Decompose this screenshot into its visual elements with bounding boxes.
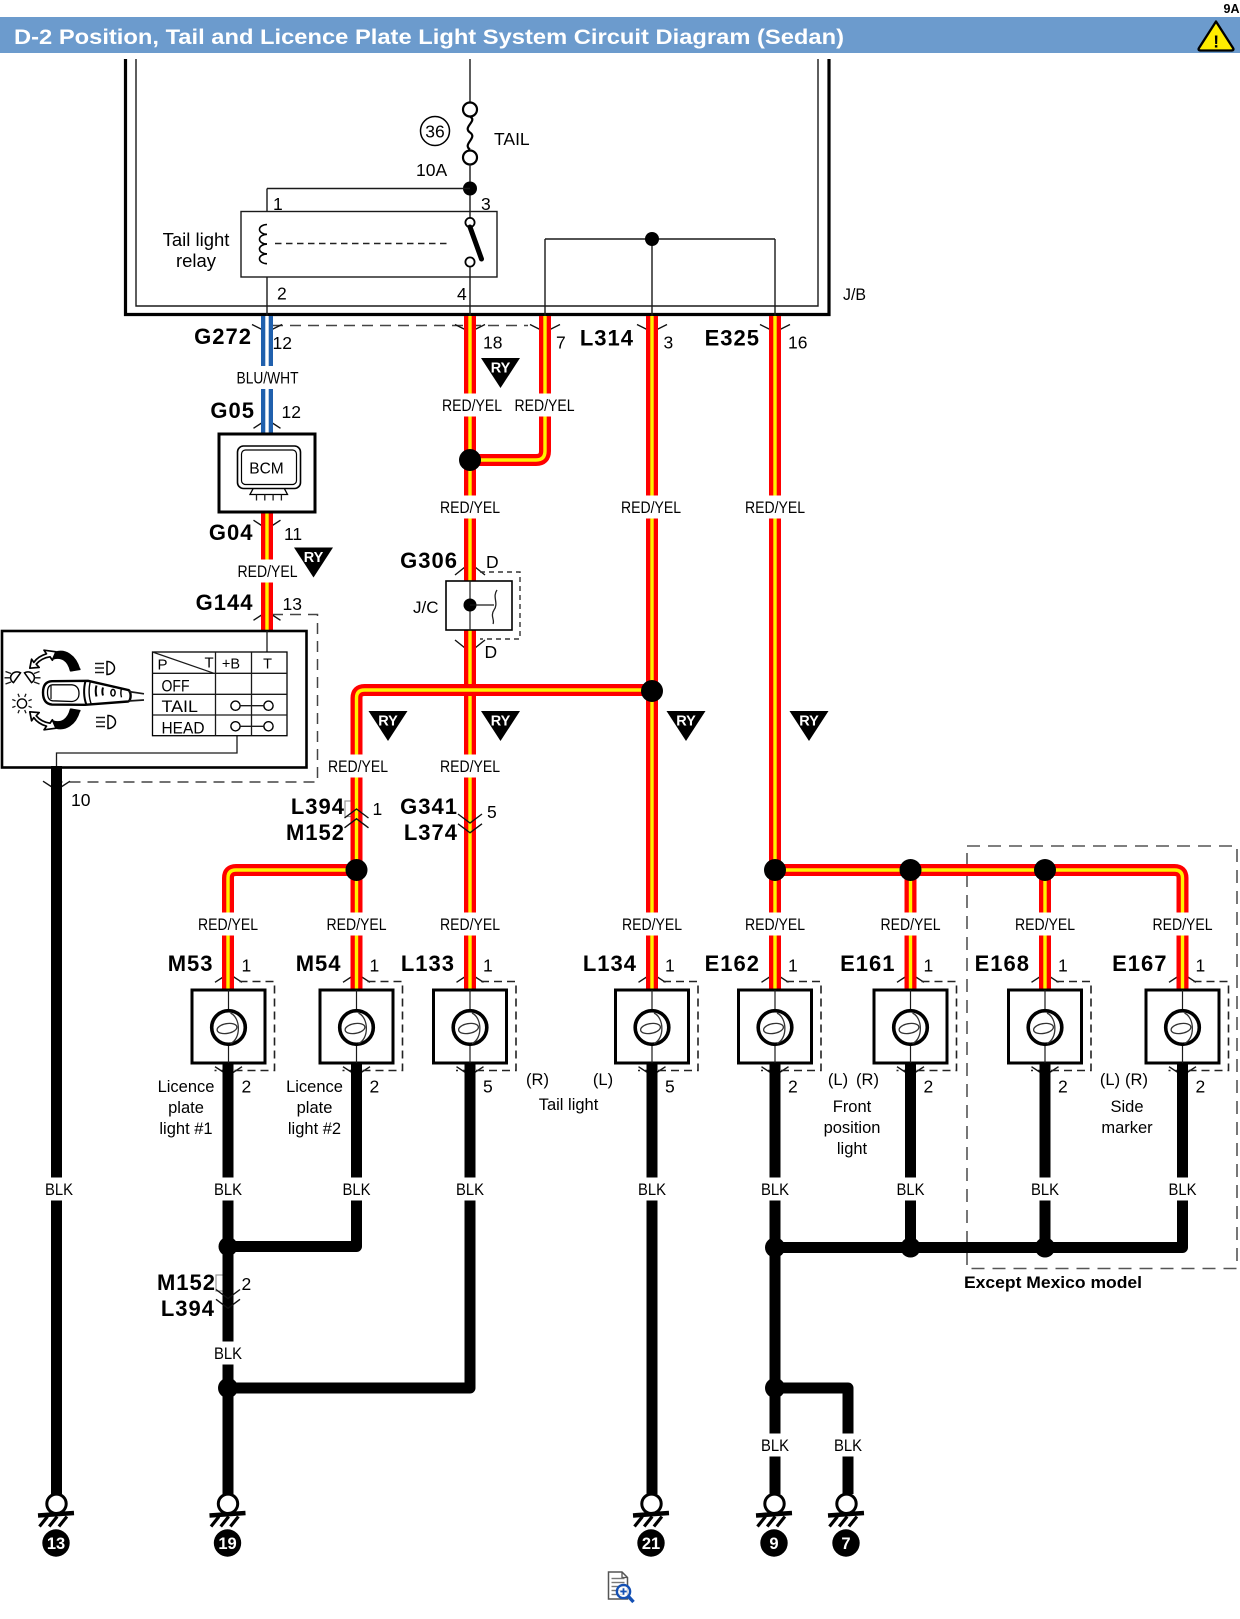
relay K1: tail light relay box (241, 212, 497, 278)
bulb lamp L133 (pins 1/5) (456, 982, 516, 1071)
ground point 19 (218, 1494, 237, 1513)
svg-text:G306: G306 (400, 548, 458, 573)
svg-text:RY: RY (491, 714, 511, 730)
svg-text:BLK: BLK (761, 1181, 789, 1199)
svg-text:7: 7 (556, 333, 566, 353)
svg-text:RED/YEL: RED/YEL (515, 397, 575, 415)
svg-text:BLU/WHT: BLU/WHT (237, 370, 299, 388)
warning icon (1199, 22, 1234, 51)
svg-text:9A: 9A (1224, 2, 1240, 16)
wire RED/YEL: pin 7 into junction (470, 316, 545, 460)
svg-text:L134: L134 (583, 951, 637, 976)
svg-text:Tail light: Tail light (539, 1096, 599, 1114)
node: wire junction dots on RED/YEL buses (459, 449, 481, 471)
svg-text:12: 12 (273, 333, 292, 353)
svg-text:RY: RY (491, 361, 511, 377)
svg-text:RED/YEL: RED/YEL (442, 397, 502, 415)
svg-text:light #2: light #2 (288, 1120, 341, 1138)
wire RED/YEL: J/C down to bulb L133 (464, 630, 476, 990)
svg-text:BLK: BLK (1169, 1181, 1197, 1199)
wire BLK: M53 to ground 19 (223, 1063, 234, 1494)
svg-text:2: 2 (788, 1077, 798, 1097)
svg-text:relay: relay (176, 250, 217, 271)
svg-text:BLK: BLK (214, 1345, 242, 1363)
svg-text:M152: M152 (157, 1270, 216, 1295)
svg-text:D-2 Position, Tail and Licence: D-2 Position, Tail and Licence Plate Lig… (14, 26, 844, 49)
svg-text:5: 5 (487, 802, 497, 822)
dashed connector boundary at G272/18/7 row (272, 325, 528, 327)
svg-text:E167: E167 (1112, 951, 1167, 976)
bulb lamp L134 (pins 1/5) (638, 982, 698, 1071)
svg-text:BLK: BLK (761, 1437, 789, 1455)
svg-text:9: 9 (769, 1535, 778, 1553)
svg-text:2: 2 (277, 284, 287, 304)
wire RED/YEL: drop to bulb E168 (1039, 870, 1051, 990)
svg-text:(R): (R) (856, 1071, 879, 1089)
svg-text:1: 1 (924, 956, 934, 976)
svg-text:Front: Front (833, 1098, 872, 1116)
svg-text:J/C: J/C (413, 598, 439, 617)
svg-text:RED/YEL: RED/YEL (327, 916, 387, 934)
svg-text:RED/YEL: RED/YEL (621, 499, 681, 517)
wire: junction to relay pin 1 (267, 188, 470, 190)
svg-text:1: 1 (788, 956, 798, 976)
svg-text:BLK: BLK (897, 1181, 925, 1199)
bulb lamp M54 (pins 1/2) (343, 982, 403, 1071)
wire RED/YEL: E325 pin 16 to bulb E162 (769, 316, 781, 990)
svg-text:2: 2 (1058, 1077, 1068, 1097)
svg-text:RED/YEL: RED/YEL (745, 499, 805, 517)
wire BLK: switch pin 10 to ground 13 (51, 766, 62, 1494)
svg-text:2: 2 (242, 1274, 252, 1294)
ground point 7 (837, 1494, 856, 1513)
svg-text:HEAD: HEAD (162, 719, 205, 737)
svg-text:13: 13 (47, 1535, 65, 1553)
svg-text:BLK: BLK (834, 1437, 862, 1455)
connector M152/L394 pin 2 (216, 1290, 240, 1299)
wire RED/YEL: BCM G04 to switch G144 (261, 512, 273, 631)
wire colour labels (232, 366, 304, 389)
wire BLK: E162 to ground 9 (770, 1063, 781, 1494)
svg-text:M54: M54 (296, 951, 342, 976)
svg-text:BLK: BLK (1031, 1181, 1059, 1199)
svg-text:G05: G05 (210, 398, 255, 423)
wire: fuse to relay pin 3 (469, 164, 471, 218)
connector pin chevrons and pin squares (455, 563, 485, 575)
svg-text:(L): (L) (828, 1071, 848, 1089)
svg-text:G04: G04 (209, 520, 254, 545)
node: fuse output junction (463, 182, 477, 196)
svg-text:RY: RY (378, 714, 398, 730)
svg-text:10: 10 (71, 790, 91, 810)
bulb lamp E162 (pins 1/2) (761, 982, 821, 1071)
svg-text:1: 1 (373, 799, 383, 819)
svg-text:T: T (205, 655, 214, 672)
wire BLK: E168 to bus (1040, 1063, 1051, 1248)
svg-text:L394: L394 (291, 794, 345, 819)
svg-text:(R): (R) (526, 1071, 549, 1089)
svg-text:RY: RY (676, 714, 696, 730)
dashed box: Except Mexico model (967, 846, 1237, 1269)
svg-text:36: 36 (425, 122, 444, 142)
wire RED/YEL: pin 18 down to J/C (464, 316, 476, 581)
node: J/B internal junction (645, 232, 659, 246)
relay switch contact (465, 218, 474, 227)
svg-text:D: D (486, 552, 499, 572)
bulb lamp E167 (pins 1/2) (1169, 982, 1229, 1071)
wire: J/B internal bus to pins 7/3/16 (545, 238, 775, 240)
svg-text:L133: L133 (401, 951, 455, 976)
wire BLK: L134 to ground 21 (647, 1063, 658, 1494)
svg-text:2: 2 (370, 1077, 380, 1097)
wire BLK: M54 into M53 ground wire (228, 1063, 357, 1247)
RY twisted-wire symbols (481, 358, 520, 388)
svg-text:RED/YEL: RED/YEL (1015, 916, 1075, 934)
svg-text:+B: +B (222, 657, 240, 673)
svg-text:BCM: BCM (249, 461, 283, 478)
bulb lamp M53 (pins 1/2) (215, 982, 275, 1071)
svg-text:1: 1 (1058, 956, 1068, 976)
dashed boundary around combination switch (58, 615, 318, 783)
svg-text:G272: G272 (194, 324, 252, 349)
wire RED/YEL: right bus to bulb E167 (775, 870, 1183, 990)
wire RED/YEL: drop to bulb M54 (351, 870, 363, 990)
svg-text:18: 18 (483, 333, 502, 353)
svg-text:J/B: J/B (843, 285, 866, 304)
wire BLU/WHT: G272 to BCM (261, 316, 273, 434)
relay coil (259, 225, 267, 264)
wire BLK: L133 into ground 19 wire (228, 1063, 470, 1388)
wire BLK: branch to ground 7 (775, 1388, 848, 1494)
svg-text:RED/YEL: RED/YEL (622, 916, 682, 934)
svg-text:RED/YEL: RED/YEL (440, 499, 500, 517)
wire RED/YEL: drop to bulb E161 (905, 870, 917, 990)
svg-text:Side: Side (1110, 1098, 1143, 1116)
module U1: BCM (219, 434, 315, 512)
svg-text:(R): (R) (1125, 1071, 1148, 1089)
svg-text:5: 5 (665, 1077, 675, 1097)
svg-text:Licence: Licence (158, 1078, 215, 1096)
wire: switch output to pin 10 (57, 736, 238, 766)
svg-text:plate: plate (297, 1099, 333, 1117)
svg-text:E325: E325 (705, 326, 760, 351)
svg-text:2: 2 (242, 1077, 252, 1097)
wire: relay pin 2 down (266, 277, 268, 316)
svg-text:OFF: OFF (162, 677, 190, 695)
svg-text:TAIL: TAIL (494, 129, 530, 149)
svg-text:RED/YEL: RED/YEL (1153, 916, 1213, 934)
wire: relay pin 4 down (469, 267, 471, 316)
svg-text:4: 4 (457, 284, 467, 304)
wire BLK: E-side ground bus with E167 (775, 1063, 1183, 1248)
bulb lamp E161 (pins 1/2) (897, 982, 957, 1071)
svg-text:light #1: light #1 (159, 1120, 212, 1138)
ground point 21 (642, 1494, 661, 1513)
svg-text:Licence: Licence (286, 1078, 343, 1096)
svg-text:RED/YEL: RED/YEL (881, 916, 941, 934)
svg-text:L314: L314 (580, 326, 634, 351)
fuse 36 TAIL 10A (463, 103, 477, 117)
ground point 13 (47, 1494, 66, 1513)
wire BLK: E161 to bus (905, 1063, 916, 1248)
svg-text:13: 13 (283, 594, 302, 614)
svg-text:plate: plate (168, 1099, 204, 1117)
svg-text:RY: RY (799, 714, 819, 730)
relay actuation dashed link (275, 243, 448, 245)
svg-text:M152: M152 (286, 820, 345, 845)
junction block J/B outer border (126, 59, 830, 315)
svg-text:16: 16 (788, 333, 807, 353)
wire: supply into fuse 36 (469, 59, 471, 102)
connector L394/M152 pin 1 (345, 809, 369, 818)
svg-text:light: light (837, 1140, 868, 1158)
svg-text:position: position (824, 1119, 881, 1137)
svg-text:2: 2 (1196, 1077, 1206, 1097)
svg-text:BLK: BLK (456, 1181, 484, 1199)
node: BLK junction dots (219, 1237, 238, 1256)
svg-text:10A: 10A (416, 160, 447, 180)
svg-text:marker: marker (1101, 1119, 1153, 1137)
svg-text:(L): (L) (1100, 1071, 1120, 1089)
svg-text:TAIL: TAIL (162, 698, 199, 716)
joint connector J/C G306 (480, 572, 520, 639)
wire: G144 into switch table (266, 631, 268, 652)
svg-text:E161: E161 (840, 951, 895, 976)
svg-text:1: 1 (370, 956, 380, 976)
svg-text:G341: G341 (400, 794, 458, 819)
svg-text:M53: M53 (168, 951, 214, 976)
ground point 9 (765, 1494, 784, 1513)
svg-text:E168: E168 (975, 951, 1030, 976)
wire RED/YEL: mid bus to L394/M152 (357, 690, 653, 870)
svg-text:Except Mexico model: Except Mexico model (964, 1273, 1142, 1292)
svg-text:BLK: BLK (45, 1181, 73, 1199)
svg-text:RED/YEL: RED/YEL (745, 916, 805, 934)
svg-text:5: 5 (483, 1077, 493, 1097)
svg-text:BLK: BLK (214, 1181, 242, 1199)
svg-text:RED/YEL: RED/YEL (238, 563, 298, 581)
switch contact table P/+B/T (153, 652, 288, 736)
svg-text:Tail light: Tail light (163, 229, 230, 250)
bulb lamp E168 (pins 1/2) (1031, 982, 1091, 1071)
svg-text:BLK: BLK (343, 1181, 371, 1199)
wire RED/YEL: L314 pin 3 to bulb L134 (646, 316, 658, 990)
zoom/document icon (609, 1572, 628, 1599)
svg-text:BLK: BLK (638, 1181, 666, 1199)
svg-text:1: 1 (242, 956, 252, 976)
svg-text:T: T (263, 656, 272, 672)
svg-text:RED/YEL: RED/YEL (440, 758, 500, 776)
lever illustration: combination switch stalk (54, 651, 80, 670)
svg-text:3: 3 (664, 333, 674, 353)
svg-text:G144: G144 (196, 590, 254, 615)
svg-text:D: D (485, 642, 498, 662)
svg-text:1: 1 (483, 956, 493, 976)
svg-text:E162: E162 (705, 951, 760, 976)
svg-text:21: 21 (642, 1535, 660, 1553)
svg-text:RY: RY (304, 550, 324, 566)
svg-text:RED/YEL: RED/YEL (440, 916, 500, 934)
svg-text:1: 1 (1196, 956, 1206, 976)
wire RED/YEL: branch to bulb M53 (228, 870, 357, 990)
svg-text:RED/YEL: RED/YEL (328, 758, 388, 776)
svg-text:1: 1 (665, 956, 675, 976)
svg-text:L394: L394 (161, 1296, 215, 1321)
svg-text:2: 2 (924, 1077, 934, 1097)
svg-text:(L): (L) (593, 1071, 613, 1089)
combination switch (lighting switch) box (2, 631, 307, 768)
svg-text:7: 7 (841, 1535, 850, 1553)
connector G341/L374 pin 5 (458, 814, 482, 823)
svg-text:!: ! (1213, 32, 1219, 52)
svg-text:L374: L374 (404, 820, 458, 845)
svg-text:12: 12 (282, 402, 301, 422)
svg-text:11: 11 (284, 524, 302, 544)
svg-text:P: P (158, 657, 168, 674)
svg-text:RED/YEL: RED/YEL (198, 916, 258, 934)
title bar (0, 17, 1240, 53)
svg-text:19: 19 (218, 1535, 236, 1553)
junction block J/B inner border (136, 59, 818, 306)
